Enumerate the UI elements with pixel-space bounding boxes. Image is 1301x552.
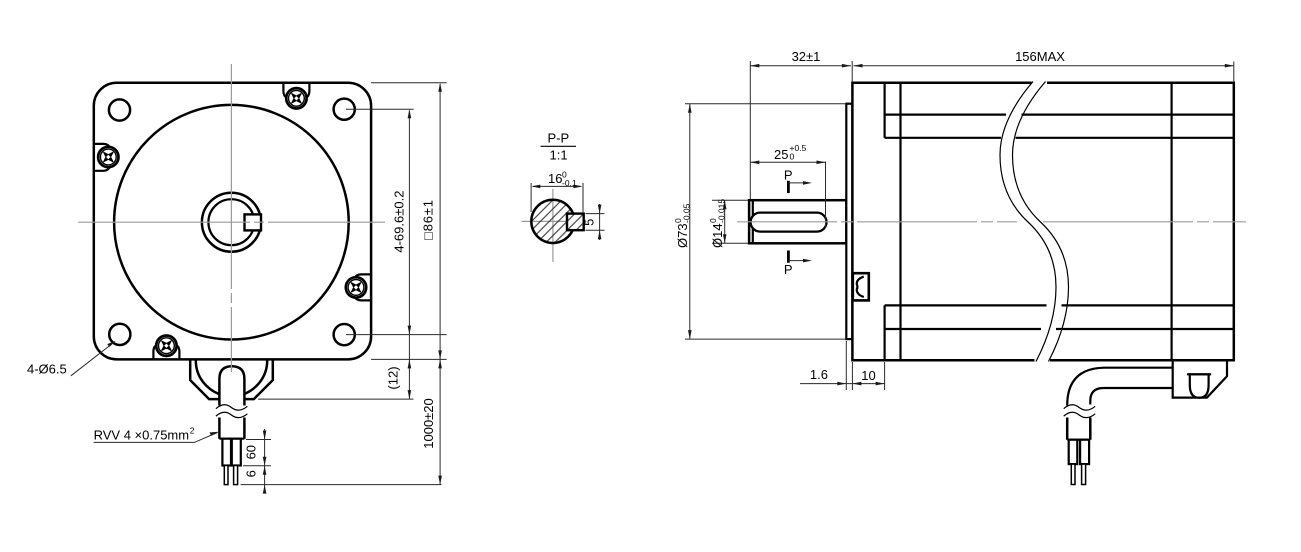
svg-text:6: 6 <box>244 470 259 477</box>
svg-text:RVV 4 ×0.75mm: RVV 4 ×0.75mm <box>94 428 190 443</box>
svg-text:0: 0 <box>790 152 795 162</box>
svg-text:+0.5: +0.5 <box>790 143 807 153</box>
svg-text:32±1: 32±1 <box>792 49 821 64</box>
svg-text:-0.05: -0.05 <box>682 203 692 223</box>
svg-text:(12): (12) <box>386 366 401 389</box>
svg-text:1.6: 1.6 <box>810 367 828 382</box>
svg-text:25: 25 <box>774 147 788 162</box>
svg-text:-0.015: -0.015 <box>717 199 727 223</box>
svg-text:□86±1: □86±1 <box>421 199 436 240</box>
svg-text:1:1: 1:1 <box>550 148 568 163</box>
svg-text:2: 2 <box>190 426 195 436</box>
svg-text:1000±20: 1000±20 <box>421 398 436 449</box>
svg-text:156MAX: 156MAX <box>1015 49 1065 64</box>
svg-text:16: 16 <box>548 171 562 186</box>
svg-text:5: 5 <box>582 219 597 226</box>
svg-text:4-69.6±0.2: 4-69.6±0.2 <box>392 191 407 253</box>
svg-text:10: 10 <box>861 368 875 383</box>
svg-text:P-P: P-P <box>548 131 570 146</box>
svg-text:60: 60 <box>244 445 259 459</box>
svg-text:P: P <box>784 167 793 182</box>
svg-text:Ø73: Ø73 <box>675 223 690 248</box>
svg-text:-0.1: -0.1 <box>562 178 577 188</box>
svg-text:Ø14: Ø14 <box>710 223 725 248</box>
svg-text:4-Ø6.5: 4-Ø6.5 <box>27 361 67 376</box>
svg-text:P: P <box>784 262 793 277</box>
